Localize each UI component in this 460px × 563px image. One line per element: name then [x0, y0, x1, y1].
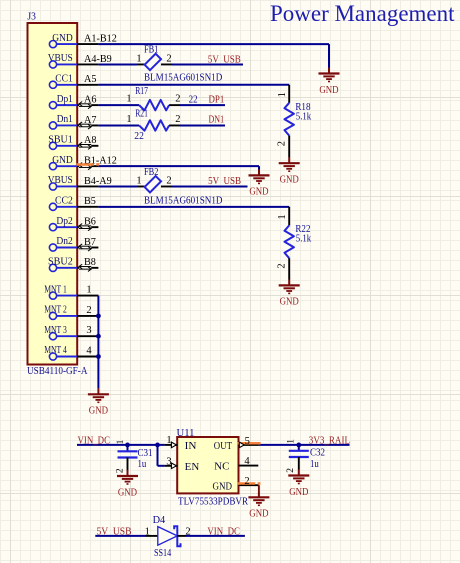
- svg-text:2: 2: [185, 526, 190, 537]
- svg-text:C32: C32: [310, 447, 325, 458]
- svg-text:TLV75533PDBVR: TLV75533PDBVR: [178, 497, 248, 508]
- svg-text:IN: IN: [185, 441, 197, 452]
- svg-text:4: 4: [86, 346, 92, 357]
- svg-text:22: 22: [134, 131, 144, 142]
- svg-text:FB1: FB1: [144, 45, 158, 56]
- svg-text:MNT 2: MNT 2: [44, 305, 67, 316]
- svg-text:R17: R17: [135, 86, 148, 97]
- svg-text:GND: GND: [213, 482, 233, 493]
- svg-text:GND: GND: [52, 33, 73, 44]
- svg-text:2: 2: [166, 53, 171, 64]
- svg-text:GND: GND: [249, 186, 268, 198]
- svg-text:OUT: OUT: [214, 441, 233, 452]
- svg-text:DN1: DN1: [209, 115, 225, 126]
- svg-text:22: 22: [189, 94, 198, 105]
- svg-text:VIN DC: VIN DC: [207, 526, 240, 537]
- svg-text:SBU1: SBU1: [48, 135, 73, 146]
- svg-text:CC1: CC1: [55, 73, 73, 84]
- svg-text:A4-B9: A4-B9: [84, 54, 112, 65]
- svg-text:1: 1: [126, 114, 131, 125]
- svg-text:VBUS: VBUS: [48, 53, 73, 64]
- svg-text:MNT 4: MNT 4: [44, 345, 67, 356]
- svg-text:1: 1: [136, 53, 141, 64]
- svg-text:B5: B5: [84, 196, 96, 207]
- svg-text:BLM15AG601SN1D: BLM15AG601SN1D: [144, 72, 223, 83]
- svg-text:1: 1: [145, 526, 150, 537]
- svg-text:EN: EN: [185, 462, 200, 473]
- svg-text:1: 1: [86, 285, 91, 296]
- svg-text:5: 5: [245, 436, 250, 447]
- svg-text:5.1k: 5.1k: [296, 112, 312, 123]
- svg-text:2: 2: [277, 263, 288, 268]
- svg-text:1: 1: [287, 439, 297, 444]
- svg-text:D4: D4: [153, 515, 166, 526]
- svg-text:5.1k: 5.1k: [296, 234, 312, 245]
- svg-text:DP1: DP1: [209, 94, 225, 105]
- svg-text:5V USB: 5V USB: [97, 526, 132, 537]
- svg-text:GND: GND: [52, 155, 73, 166]
- svg-text:1u: 1u: [310, 459, 319, 470]
- svg-text:1u: 1u: [138, 459, 147, 470]
- svg-text:1: 1: [277, 92, 288, 97]
- svg-text:GND: GND: [319, 84, 338, 96]
- svg-text:A5: A5: [84, 74, 96, 85]
- svg-text:2: 2: [175, 114, 180, 125]
- svg-text:GND: GND: [289, 486, 308, 498]
- svg-text:Dp2: Dp2: [56, 216, 72, 227]
- svg-text:GND: GND: [280, 296, 299, 308]
- svg-text:1: 1: [277, 214, 288, 219]
- svg-text:Dp1: Dp1: [57, 94, 73, 105]
- svg-text:J3: J3: [27, 12, 36, 23]
- svg-text:3: 3: [86, 325, 91, 336]
- svg-text:B4-A9: B4-A9: [84, 176, 112, 187]
- svg-text:CC2: CC2: [55, 196, 73, 207]
- svg-text:NC: NC: [214, 462, 229, 473]
- svg-text:GND: GND: [118, 486, 137, 498]
- svg-text:GND: GND: [249, 508, 268, 520]
- svg-text:VIN_DC: VIN_DC: [78, 436, 111, 447]
- svg-text:2: 2: [277, 141, 288, 146]
- svg-text:2: 2: [166, 176, 171, 187]
- svg-text:2: 2: [116, 468, 126, 473]
- svg-text:U11: U11: [177, 428, 195, 439]
- svg-text:4: 4: [244, 456, 250, 467]
- svg-text:1: 1: [136, 176, 141, 187]
- svg-text:GND: GND: [280, 174, 299, 186]
- svg-text:3V3_RAIL: 3V3_RAIL: [309, 436, 350, 447]
- svg-text:5V USB: 5V USB: [208, 176, 241, 187]
- svg-text:1: 1: [166, 435, 171, 446]
- svg-text:5V USB: 5V USB: [208, 55, 241, 66]
- svg-text:Dn1: Dn1: [57, 114, 73, 125]
- svg-text:GND: GND: [89, 405, 108, 417]
- svg-text:2: 2: [86, 305, 91, 316]
- svg-text:MNT 1: MNT 1: [44, 284, 67, 295]
- svg-text:SBU2: SBU2: [48, 257, 73, 268]
- svg-text:A1-B12: A1-B12: [84, 34, 117, 45]
- svg-text:VBUS: VBUS: [48, 175, 73, 186]
- svg-text:BLM15AG601SN1D: BLM15AG601SN1D: [144, 195, 223, 206]
- svg-text:USB4110-GF-A: USB4110-GF-A: [27, 366, 88, 377]
- svg-text:C31: C31: [138, 448, 153, 459]
- svg-text:2: 2: [175, 93, 180, 104]
- svg-text:2: 2: [286, 468, 296, 473]
- svg-text:MNT 3: MNT 3: [44, 325, 67, 336]
- svg-text:3: 3: [166, 457, 171, 468]
- svg-text:2: 2: [244, 476, 249, 487]
- svg-text:1: 1: [116, 439, 126, 444]
- svg-text:FB2: FB2: [144, 167, 158, 178]
- svg-text:Power Management: Power Management: [270, 1, 455, 26]
- svg-text:1: 1: [126, 93, 131, 104]
- svg-text:Dn2: Dn2: [56, 236, 72, 247]
- svg-text:R21: R21: [135, 109, 148, 120]
- svg-text:SS14: SS14: [154, 548, 172, 559]
